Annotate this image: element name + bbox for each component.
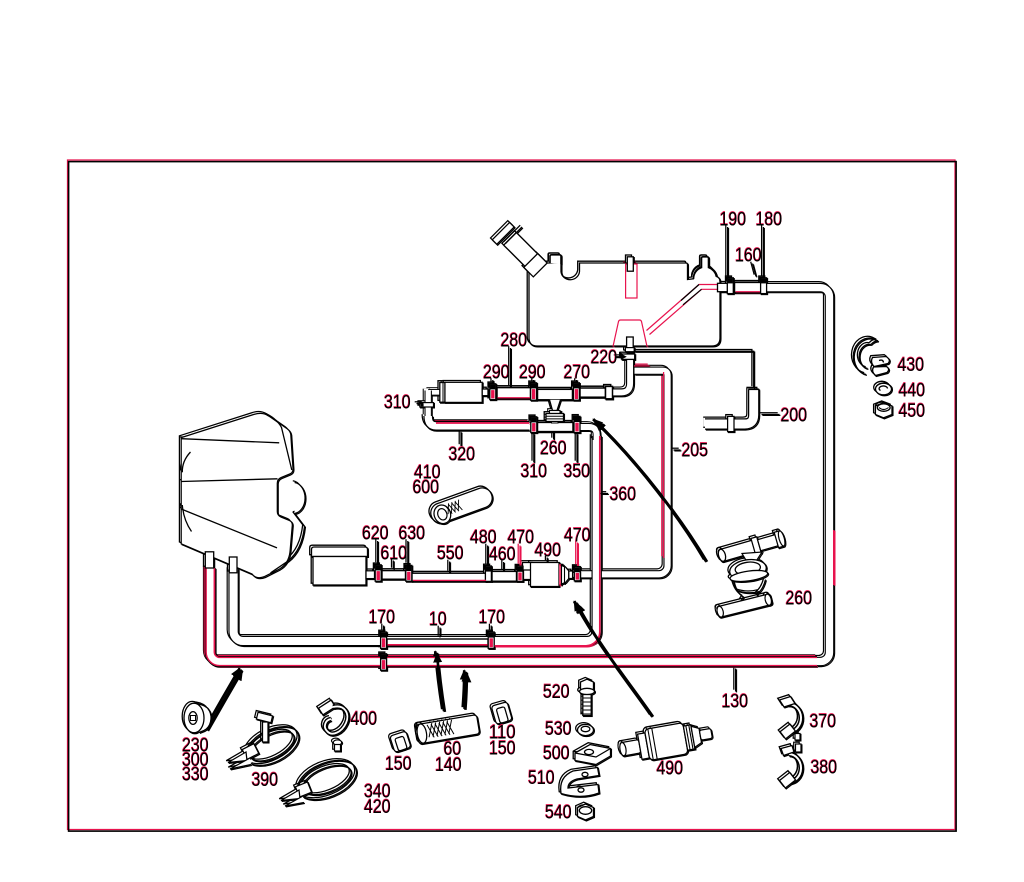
svg-text:460: 460 (489, 545, 516, 566)
svg-text:160: 160 (735, 246, 762, 267)
svg-text:130: 130 (722, 692, 749, 713)
svg-text:420: 420 (364, 797, 391, 818)
svg-text:400: 400 (351, 709, 378, 730)
svg-text:290: 290 (483, 363, 510, 384)
svg-text:205: 205 (682, 441, 709, 462)
svg-text:630: 630 (399, 524, 426, 545)
svg-text:150: 150 (489, 739, 516, 760)
svg-text:260: 260 (786, 589, 813, 610)
svg-text:310: 310 (384, 393, 411, 414)
svg-text:280: 280 (501, 331, 528, 352)
svg-text:330: 330 (182, 765, 209, 786)
svg-text:170: 170 (479, 608, 506, 629)
svg-text:350: 350 (564, 462, 591, 483)
svg-text:310: 310 (521, 462, 548, 483)
svg-text:470: 470 (564, 526, 591, 547)
svg-text:490: 490 (657, 759, 684, 780)
svg-text:440: 440 (899, 381, 926, 402)
svg-text:220: 220 (591, 348, 618, 369)
svg-text:150: 150 (385, 754, 412, 775)
svg-text:200: 200 (781, 406, 808, 427)
svg-text:610: 610 (381, 544, 408, 565)
svg-text:170: 170 (369, 608, 396, 629)
svg-text:540: 540 (545, 803, 572, 824)
svg-text:260: 260 (540, 439, 567, 460)
svg-text:360: 360 (610, 485, 637, 506)
svg-text:390: 390 (252, 770, 279, 791)
svg-text:450: 450 (899, 401, 926, 422)
svg-text:270: 270 (564, 363, 591, 384)
svg-text:180: 180 (756, 210, 783, 231)
svg-text:290: 290 (519, 363, 546, 384)
svg-text:510: 510 (528, 768, 555, 789)
svg-text:500: 500 (543, 744, 570, 765)
svg-text:530: 530 (545, 719, 572, 740)
svg-text:320: 320 (449, 445, 476, 466)
svg-text:380: 380 (811, 758, 838, 779)
svg-text:190: 190 (720, 210, 747, 231)
svg-text:600: 600 (413, 478, 440, 499)
svg-text:10: 10 (429, 610, 447, 631)
svg-text:620: 620 (362, 524, 389, 545)
svg-text:550: 550 (437, 544, 464, 565)
svg-text:430: 430 (898, 355, 925, 376)
svg-text:370: 370 (810, 712, 837, 733)
svg-text:490: 490 (535, 541, 562, 562)
svg-text:520: 520 (543, 682, 570, 703)
svg-text:140: 140 (435, 755, 462, 776)
